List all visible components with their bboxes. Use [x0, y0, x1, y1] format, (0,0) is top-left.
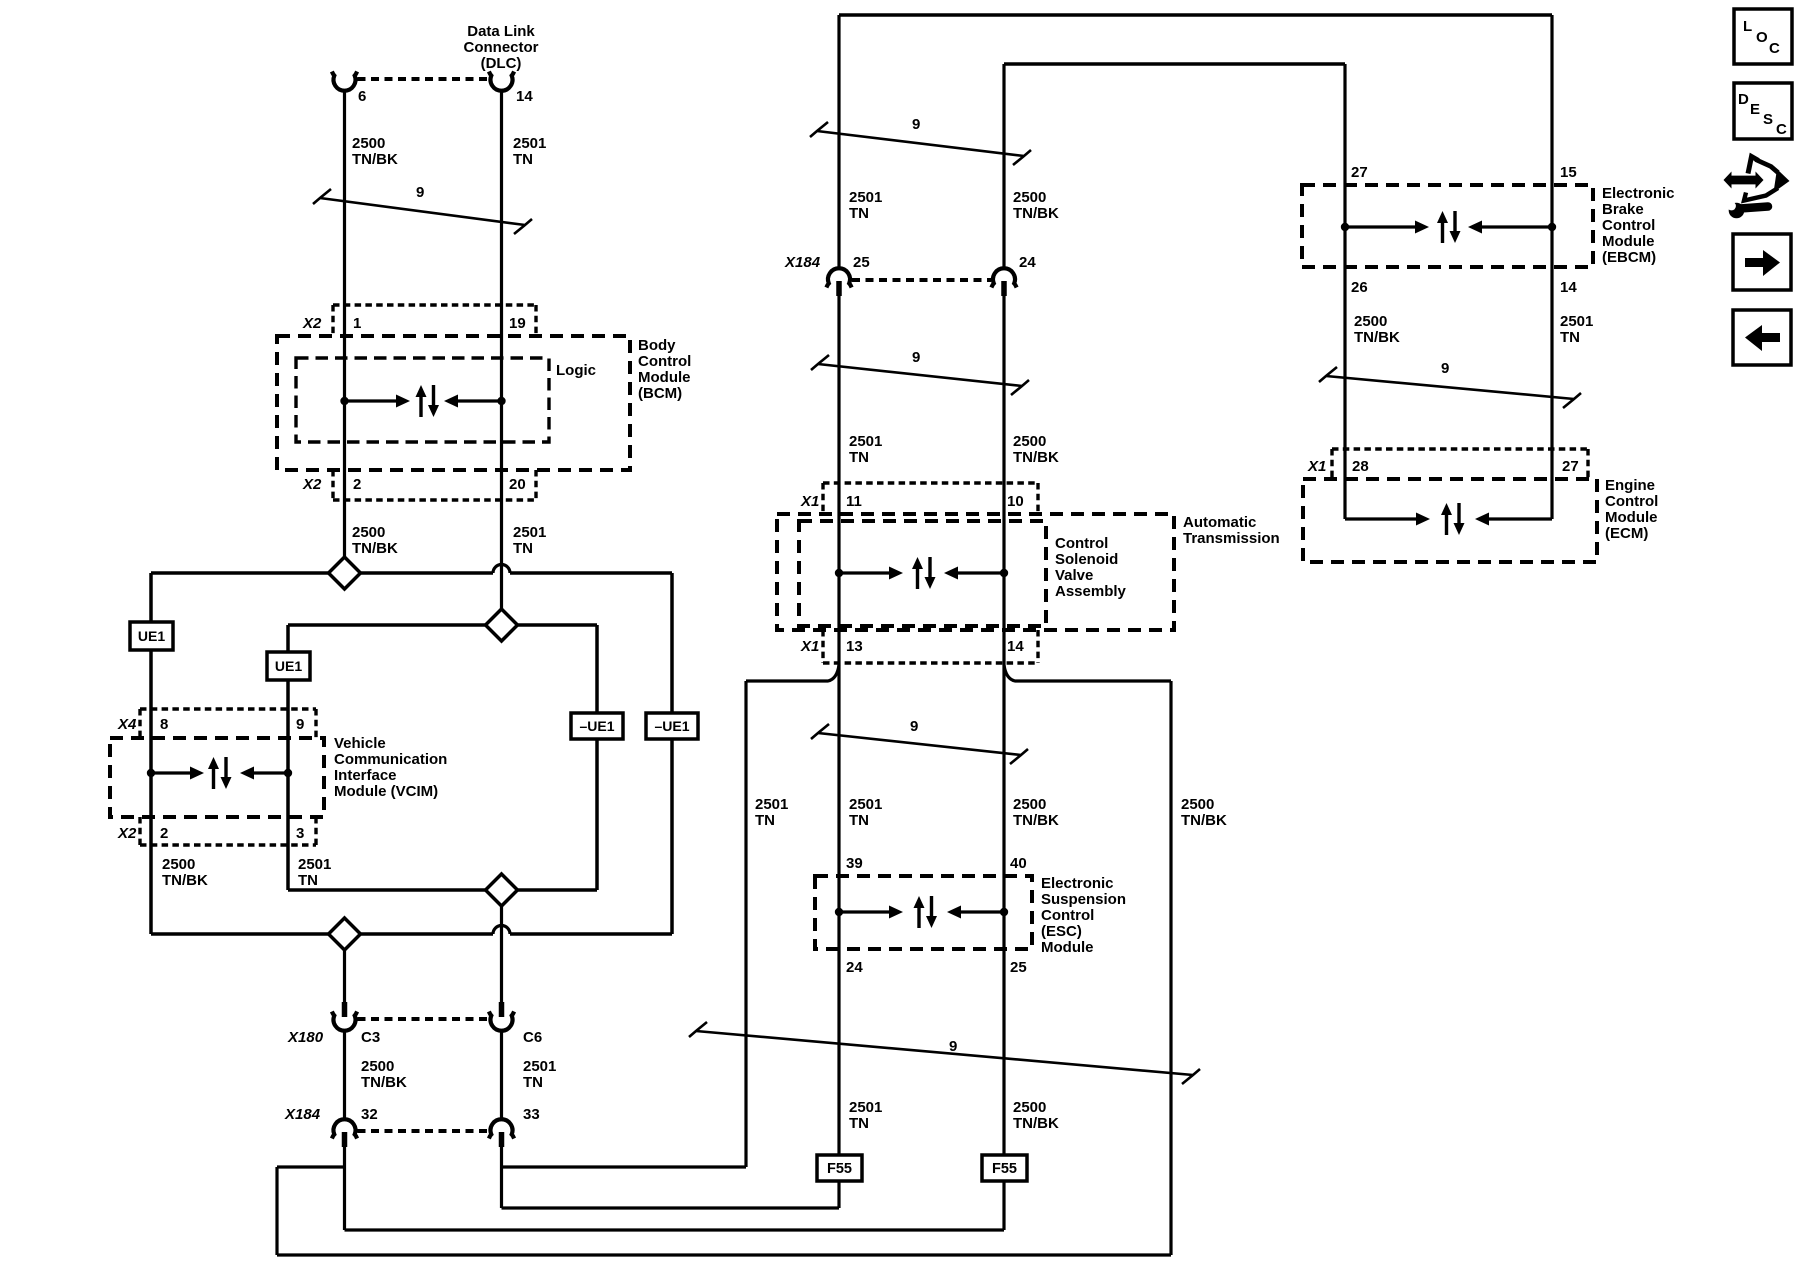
svg-text:TN/BK: TN/BK: [1354, 329, 1400, 346]
logic block inside BCM: [296, 358, 596, 442]
svg-text:Automatic: Automatic: [1183, 514, 1256, 531]
svg-text:2500: 2500: [1013, 1099, 1046, 1116]
svg-text:TN/BK: TN/BK: [1013, 205, 1059, 222]
bidirectional data arrows EBCM: [1341, 223, 1349, 231]
svg-text:(DLC): (DLC): [481, 55, 522, 72]
svg-text:C: C: [1769, 40, 1780, 57]
svg-text:Logic: Logic: [556, 362, 596, 379]
net label UE1 (outer ring): [130, 622, 173, 650]
wire 2500 TN/BK BCM to splice labels: [352, 524, 546, 557]
svg-text:2501: 2501: [513, 135, 546, 152]
svg-text:Electronic: Electronic: [1041, 875, 1114, 892]
svg-text:(ESC): (ESC): [1041, 923, 1082, 940]
twisted pair 9 (bottom, four wires): [696, 1031, 1193, 1075]
svg-text:Data Link: Data Link: [467, 23, 535, 40]
svg-text:14: 14: [1007, 638, 1024, 655]
connector X180 (pins C3,C6): [287, 1002, 542, 1046]
svg-text:UE1: UE1: [138, 628, 165, 644]
svg-text:2500: 2500: [361, 1058, 394, 1075]
twisted pair 9 (EBCM-ECM): [1326, 376, 1574, 399]
svg-text:C3: C3: [361, 1029, 380, 1046]
svg-text:–UE1: –UE1: [579, 718, 614, 734]
twisted pair 9 (top middle): [817, 131, 1024, 156]
svg-text:1: 1: [353, 315, 361, 332]
svg-text:Interface: Interface: [334, 767, 397, 784]
svg-text:Module: Module: [638, 369, 691, 386]
svg-text:15: 15: [1560, 164, 1577, 181]
svg-text:40: 40: [1010, 855, 1027, 872]
svg-text:25: 25: [853, 254, 870, 271]
svg-text:–UE1: –UE1: [654, 718, 689, 734]
svg-text:TN/BK: TN/BK: [352, 540, 398, 557]
wire 2501 TN DLC pin14 to BCM/VCIM: [502, 90, 547, 609]
wire 2500 TN/BK X180 to X184: [345, 1030, 407, 1119]
bus ring inner (VCIM loop): [288, 625, 597, 890]
svg-text:9: 9: [910, 718, 918, 735]
svg-text:28: 28: [1352, 458, 1369, 475]
bottom bus 2501 TN (to F55 wire): [502, 1206, 840, 1209]
fuse F55 (2500 TN/BK): [982, 1155, 1027, 1230]
svg-text:Vehicle: Vehicle: [334, 735, 386, 752]
svg-text:TN/BK: TN/BK: [1013, 449, 1059, 466]
svg-text:X1: X1: [800, 493, 819, 510]
svg-text:19: 19: [509, 315, 526, 332]
connector X1 transmission bottom (pins 13,14): [800, 630, 1038, 663]
svg-text:Assembly: Assembly: [1055, 583, 1127, 600]
module EBCM (Electronic Brake Control Module): [1302, 164, 1675, 296]
svg-text:Control: Control: [1605, 493, 1658, 510]
svg-text:X4: X4: [117, 716, 137, 733]
connector X1 ECM (pins 28,27): [1307, 449, 1588, 479]
svg-text:(EBCM): (EBCM): [1602, 249, 1656, 266]
svg-text:F55: F55: [827, 1161, 852, 1177]
net label -UE1 (outer ring right): [646, 713, 698, 739]
svg-text:2500: 2500: [352, 135, 385, 152]
twisted pair 9 (above transmission): [818, 364, 1022, 386]
svg-text:27: 27: [1562, 458, 1579, 475]
svg-text:2501: 2501: [849, 796, 882, 813]
svg-text:2501: 2501: [849, 433, 882, 450]
wire 2500 TN/BK from X184-32 to bottom bus: [277, 1147, 345, 1255]
svg-text:10: 10: [1007, 493, 1024, 510]
svg-text:3: 3: [296, 825, 304, 842]
svg-text:Body: Body: [638, 337, 676, 354]
svg-text:2501: 2501: [849, 1099, 882, 1116]
module VCIM (Vehicle Communication Interface Module): [110, 735, 447, 817]
svg-text:26: 26: [1351, 279, 1368, 296]
svg-text:(BCM): (BCM): [638, 385, 682, 402]
svg-text:2500: 2500: [352, 524, 385, 541]
svg-text:Control: Control: [638, 353, 691, 370]
svg-text:2501: 2501: [1560, 313, 1593, 330]
connector X2 BCM top (pins 1,19): [302, 305, 536, 336]
sidebar button DESC: [1734, 83, 1792, 139]
net label -UE1 (inner ring right): [571, 713, 623, 739]
svg-text:2500: 2500: [1013, 796, 1046, 813]
svg-text:14: 14: [1560, 279, 1577, 296]
svg-text:Control: Control: [1055, 535, 1108, 552]
svg-text:9: 9: [1441, 360, 1449, 377]
wire 2501 inner ring bottom to X180: [500, 906, 503, 1002]
wire labels middle pair top: [849, 189, 1059, 222]
svg-text:8: 8: [160, 716, 168, 733]
svg-text:2500: 2500: [1354, 313, 1387, 330]
svg-text:Module: Module: [1041, 939, 1094, 956]
connector X2 VCIM bottom (pins 2,3): [117, 817, 316, 845]
svg-text:TN: TN: [513, 151, 533, 168]
svg-text:33: 33: [523, 1106, 540, 1123]
svg-text:9: 9: [296, 716, 304, 733]
svg-text:TN: TN: [523, 1074, 543, 1091]
svg-text:Communication: Communication: [334, 751, 447, 768]
wire 2500 TN/BK X184-24 down to F55: [1002, 296, 1005, 1155]
svg-text:D: D: [1738, 91, 1749, 108]
svg-text:Transmission: Transmission: [1183, 530, 1280, 547]
svg-text:32: 32: [361, 1106, 378, 1123]
bottom bus 2500 TN/BK (to ESC branch): [277, 1253, 1171, 1256]
svg-text:2: 2: [353, 476, 361, 493]
svg-text:39: 39: [846, 855, 863, 872]
wire 2501 TN from X184-33 to bottom bus: [502, 1147, 747, 1208]
svg-text:Connector: Connector: [464, 39, 539, 56]
svg-text:TN/BK: TN/BK: [1181, 812, 1227, 829]
svg-text:TN: TN: [1560, 329, 1580, 346]
svg-text:X2: X2: [302, 476, 322, 493]
svg-text:2501: 2501: [513, 524, 546, 541]
svg-text:TN/BK: TN/BK: [1013, 1115, 1059, 1132]
svg-text:25: 25: [1010, 959, 1027, 976]
connector X184 top (pins 25,24): [784, 254, 1036, 296]
svg-text:9: 9: [416, 184, 424, 201]
wire labels VCIM bottom: [162, 856, 331, 889]
svg-text:2500: 2500: [1013, 433, 1046, 450]
svg-text:TN: TN: [755, 812, 775, 829]
wire labels above ESC: [849, 796, 1059, 829]
branch wire 2500 TN/BK (pin14 to right drop): [1004, 665, 1227, 1255]
svg-text:Electronic: Electronic: [1602, 185, 1675, 202]
splice diamond (2500 net at outer ring bottom): [329, 918, 361, 950]
svg-text:E: E: [1750, 101, 1760, 118]
svg-text:Valve: Valve: [1055, 567, 1093, 584]
bidirectional data arrows VCIM: [147, 769, 155, 777]
svg-text:X184: X184: [284, 1106, 321, 1123]
svg-text:Suspension: Suspension: [1041, 891, 1126, 908]
bidirectional data arrows ECM: [1345, 517, 1418, 520]
svg-text:X1: X1: [1307, 458, 1326, 475]
svg-text:X180: X180: [287, 1029, 324, 1046]
svg-text:20: 20: [509, 476, 526, 493]
svg-text:13: 13: [846, 638, 863, 655]
enclosure Automatic Transmission: [777, 514, 1280, 630]
connector X4 VCIM top (pins 8,9): [117, 709, 316, 738]
sidebar button LOC: [1734, 9, 1792, 64]
svg-text:X1: X1: [800, 638, 819, 655]
bidirectional data arrows ESC: [835, 908, 843, 916]
fuse F55 (2501 TN): [817, 1155, 862, 1208]
top bus wire 2501 TN (DLC ring to EBCM 15): [839, 15, 1552, 268]
svg-text:27: 27: [1351, 164, 1368, 181]
net label UE1 (inner ring): [267, 652, 310, 680]
svg-text:X184: X184: [784, 254, 821, 271]
crossover hop (2501 over outer ring top): [493, 565, 510, 574]
connector X1 transmission top (pins 11,10): [800, 483, 1038, 514]
sidebar button back arrow: [1733, 310, 1791, 365]
svg-text:TN/BK: TN/BK: [352, 151, 398, 168]
svg-text:TN: TN: [849, 449, 869, 466]
bidirectional data arrows BCM: [340, 397, 348, 405]
svg-text:TN/BK: TN/BK: [162, 872, 208, 889]
bidirectional data arrows solenoid assembly: [835, 569, 843, 577]
crossover hop (2501 over outer ring bottom): [493, 926, 510, 935]
svg-text:Control: Control: [1041, 907, 1094, 924]
svg-text:Solenoid: Solenoid: [1055, 551, 1118, 568]
svg-text:L: L: [1743, 18, 1752, 35]
svg-text:TN: TN: [849, 812, 869, 829]
svg-text:Engine: Engine: [1605, 477, 1655, 494]
svg-text:TN: TN: [849, 1115, 869, 1132]
svg-text:14: 14: [516, 88, 533, 105]
svg-text:C: C: [1776, 121, 1787, 138]
wire labels above F55: [849, 1099, 1059, 1132]
svg-text:24: 24: [846, 959, 863, 976]
twisted pair 9 (DLC wires): [320, 198, 525, 225]
twisted pair 9 (above ESC): [818, 733, 1021, 755]
svg-text:TN: TN: [513, 540, 533, 557]
svg-text:Brake: Brake: [1602, 201, 1644, 218]
svg-text:S: S: [1763, 111, 1773, 128]
svg-text:6: 6: [358, 88, 366, 105]
svg-text:F55: F55: [992, 1161, 1017, 1177]
connector X184 bottom (pins 32,33): [284, 1106, 540, 1147]
svg-text:9: 9: [949, 1038, 957, 1055]
module ECM (Engine Control Module): [1303, 477, 1658, 562]
svg-text:TN/BK: TN/BK: [361, 1074, 407, 1091]
svg-text:TN/BK: TN/BK: [1013, 812, 1059, 829]
second bus wire 2500 TN/BK (to EBCM 27): [1004, 64, 1345, 268]
svg-text:11: 11: [846, 493, 862, 510]
splice diamond (2500 net at outer ring top): [329, 557, 361, 589]
wire 2500 TN/BK EBCM-26 to ECM: [1345, 64, 1400, 519]
module BCM (Body Control Module): [277, 336, 691, 470]
svg-text:Control: Control: [1602, 217, 1655, 234]
wire 2501 TN EBCM-14 to ECM: [1552, 15, 1593, 519]
svg-text:2500: 2500: [162, 856, 195, 873]
connector X2 BCM bottom (pins 2,20): [302, 470, 536, 500]
svg-text:O: O: [1756, 29, 1768, 46]
svg-text:Module (VCIM): Module (VCIM): [334, 783, 438, 800]
svg-text:2500: 2500: [1181, 796, 1214, 813]
svg-text:X2: X2: [117, 825, 137, 842]
bottom bus 2500 TN/BK (to F55 wire): [345, 1228, 1005, 1231]
branch wire 2501 TN (pin13 to left drop): [746, 665, 839, 1167]
svg-text:(ECM): (ECM): [1605, 525, 1648, 542]
svg-text:9: 9: [912, 349, 920, 366]
bus ring outer (VCIM loop): [151, 573, 672, 934]
module Control Solenoid Valve Assembly: [799, 521, 1127, 626]
connector DLC (Data Link Connector): [332, 23, 539, 105]
svg-text:TN: TN: [849, 205, 869, 222]
wire 2501 TN X180 to X184: [502, 1030, 557, 1119]
svg-text:2501: 2501: [755, 796, 788, 813]
svg-text:2501: 2501: [523, 1058, 556, 1075]
svg-text:TN: TN: [298, 872, 318, 889]
wire 2501 TN X184-25 down to F55: [837, 296, 840, 1155]
svg-text:Module: Module: [1605, 509, 1658, 526]
svg-text:9: 9: [912, 116, 920, 133]
svg-text:C6: C6: [523, 1029, 542, 1046]
svg-text:Module: Module: [1602, 233, 1655, 250]
sidebar icon wiring pointer with wrench: [1722, 157, 1790, 219]
svg-text:UE1: UE1: [275, 658, 302, 674]
splice diamond (2501 net at inner ring top): [486, 609, 518, 641]
wire 2500 TN/BK DLC pin6 to splice: [345, 90, 398, 557]
svg-text:2500: 2500: [1013, 189, 1046, 206]
sidebar button forward arrow: [1733, 234, 1791, 290]
svg-text:2501: 2501: [298, 856, 331, 873]
svg-text:24: 24: [1019, 254, 1036, 271]
wire 2500 outer ring bottom to X180: [343, 950, 346, 1002]
svg-text:X2: X2: [302, 315, 322, 332]
splice diamond (2501 net at inner ring bottom): [486, 874, 518, 906]
svg-text:2: 2: [160, 825, 168, 842]
svg-text:2501: 2501: [849, 189, 882, 206]
wire labels above transmission: [849, 433, 1059, 466]
module ESC (Electronic Suspension Control): [815, 855, 1126, 976]
